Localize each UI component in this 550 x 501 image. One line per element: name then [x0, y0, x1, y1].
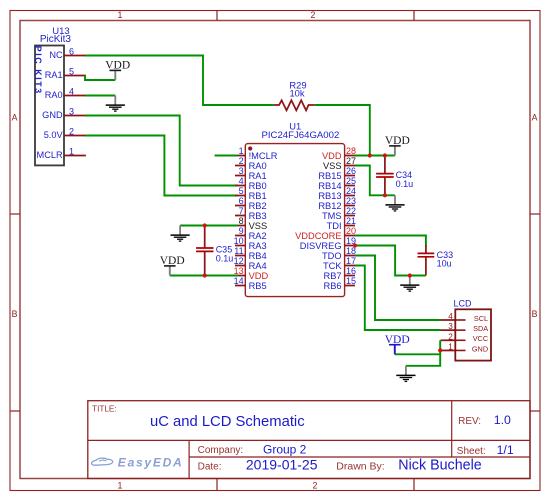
- svg-text:25: 25: [346, 176, 356, 186]
- svg-text:TMS: TMS: [322, 211, 342, 221]
- capacitor C34 0.1u: [376, 156, 413, 196]
- svg-text:RB15: RB15: [318, 171, 341, 181]
- svg-text:2019-01-25: 2019-01-25: [246, 457, 318, 473]
- svg-text:RA0: RA0: [45, 90, 63, 100]
- wire VDD to LCD node: [395, 353, 440, 355]
- wire 5.0V pin2 to RB1: [85, 136, 238, 196]
- resistor R29 10k: [274, 79, 315, 110]
- svg-text:5: 5: [239, 186, 244, 196]
- svg-text:Sheet:: Sheet:: [457, 446, 486, 457]
- svg-text:15: 15: [346, 276, 356, 286]
- svg-text:TCK: TCK: [323, 261, 342, 271]
- svg-text:26: 26: [346, 166, 356, 176]
- capacitor C35 0.1u: [196, 226, 233, 276]
- junction C33 ground: [408, 273, 412, 277]
- svg-text:23: 23: [346, 196, 356, 206]
- svg-text:10u: 10u: [437, 259, 452, 269]
- svg-text:TDO: TDO: [322, 251, 342, 261]
- svg-text:PicKit3: PicKit3: [40, 34, 72, 45]
- svg-text:20: 20: [346, 226, 356, 236]
- power VDD near LCD (blue): [385, 334, 410, 355]
- svg-text:B: B: [532, 309, 538, 319]
- wire NC pin6 to R29: [85, 56, 274, 106]
- svg-text:RB6: RB6: [324, 281, 342, 291]
- svg-text:24: 24: [346, 186, 356, 196]
- svg-text:11: 11: [234, 246, 243, 256]
- wire to !MCLR pin1: [215, 155, 238, 157]
- svg-text:RB0: RB0: [249, 181, 267, 191]
- svg-text:!MCLR: !MCLR: [249, 151, 278, 161]
- svg-text:3: 3: [448, 322, 453, 331]
- junction R29/pin28: [368, 153, 372, 157]
- svg-text:PIC24FJ64GA002: PIC24FJ64GA002: [261, 130, 339, 141]
- junction C34 bottom: [383, 193, 387, 197]
- power VDD near pin13: [160, 255, 185, 276]
- svg-text:RA2: RA2: [249, 231, 267, 241]
- junction DISVREG pin19: [353, 243, 357, 247]
- wire TCK pin17 to LCD SDA: [355, 266, 441, 331]
- capacitor C33 10u: [418, 245, 454, 276]
- svg-text:2: 2: [313, 481, 318, 491]
- svg-text:TDI: TDI: [327, 221, 342, 231]
- svg-text:6: 6: [239, 196, 244, 206]
- svg-text:6: 6: [69, 46, 74, 56]
- svg-text:18: 18: [346, 246, 356, 256]
- svg-text:16: 16: [346, 266, 356, 276]
- svg-text:1: 1: [448, 342, 453, 351]
- svg-text:12: 12: [234, 256, 244, 266]
- svg-text:SCL: SCL: [474, 314, 488, 323]
- svg-text:RB7: RB7: [324, 271, 342, 281]
- svg-text:VDD: VDD: [322, 151, 342, 161]
- svg-text:SDA: SDA: [473, 324, 488, 333]
- svg-text:GND: GND: [472, 344, 488, 353]
- wire DISVREG pin19 loop to C33 bottom: [355, 246, 426, 276]
- svg-text:2: 2: [311, 10, 316, 20]
- svg-text:Drawn By:: Drawn By:: [336, 460, 384, 472]
- junction LCD GND pin: [438, 348, 442, 352]
- svg-text:REV:: REV:: [458, 416, 481, 427]
- svg-text:7: 7: [239, 206, 244, 216]
- svg-text:A: A: [12, 113, 18, 123]
- svg-text:EasyEDA: EasyEDA: [118, 456, 184, 470]
- svg-text:1.0: 1.0: [494, 413, 511, 427]
- svg-text:VDD: VDD: [385, 334, 410, 346]
- svg-text:RB3: RB3: [249, 211, 267, 221]
- svg-text:RA1: RA1: [45, 70, 63, 80]
- svg-text:VDD: VDD: [385, 135, 410, 147]
- svg-text:DISVREG: DISVREG: [300, 241, 342, 251]
- svg-text:VSS: VSS: [249, 221, 268, 231]
- wire VDD pin28 to VDD symbol: [355, 155, 395, 157]
- svg-text:RA3: RA3: [249, 241, 267, 251]
- svg-text:B: B: [12, 309, 18, 319]
- svg-text:LCD: LCD: [454, 299, 473, 309]
- wire GND pin3 to RB0: [85, 116, 238, 186]
- power VDD near pin28: [385, 135, 410, 156]
- svg-text:3: 3: [69, 106, 74, 116]
- svg-text:2: 2: [69, 126, 74, 136]
- svg-text:RB5: RB5: [249, 281, 267, 291]
- wire VSS pin8 to ground: [180, 225, 238, 227]
- svg-text:NC: NC: [49, 50, 63, 60]
- svg-text:28: 28: [346, 146, 356, 156]
- svg-text:RA0: RA0: [249, 161, 267, 171]
- svg-text:RB4: RB4: [249, 251, 267, 261]
- svg-text:RB1: RB1: [249, 191, 267, 201]
- connector U13 PicKit3: [33, 26, 86, 166]
- svg-text:VDD: VDD: [249, 271, 269, 281]
- svg-text:5: 5: [69, 66, 74, 76]
- svg-text:27: 27: [346, 156, 356, 166]
- svg-text:1/1: 1/1: [497, 443, 514, 457]
- wire RA0 pin4 to ground: [85, 95, 115, 97]
- svg-text:0.1u: 0.1u: [216, 253, 234, 263]
- svg-text:21: 21: [346, 216, 356, 226]
- svg-text:4: 4: [69, 86, 74, 96]
- svg-text:10: 10: [234, 236, 244, 246]
- svg-text:RB2: RB2: [249, 201, 267, 211]
- svg-text:4: 4: [448, 312, 453, 321]
- svg-text:2: 2: [448, 332, 453, 341]
- wire VDD pin13: [170, 275, 238, 277]
- connector LCD: [441, 299, 492, 361]
- ground near U13: [106, 96, 125, 112]
- svg-text:VDD: VDD: [105, 60, 130, 72]
- svg-text:4: 4: [239, 176, 244, 186]
- svg-text:1: 1: [118, 10, 123, 20]
- svg-text:RB13: RB13: [318, 191, 341, 201]
- svg-text:17: 17: [346, 256, 356, 266]
- wire TDO pin18 to LCD SCL: [355, 256, 441, 321]
- svg-text:10k: 10k: [289, 88, 304, 99]
- IC U1 PIC24FJ64GA002: [234, 121, 356, 296]
- svg-text:1: 1: [118, 481, 123, 491]
- wire R29 to VDD pin28: [315, 105, 370, 156]
- svg-text:GND: GND: [42, 110, 63, 120]
- svg-text:14: 14: [234, 276, 244, 286]
- wire VDDCORE pin20 to C33: [355, 236, 426, 247]
- junction C35 bottom: [203, 273, 207, 277]
- ground near LCD: [396, 366, 415, 382]
- svg-text:TITLE:: TITLE:: [92, 404, 117, 413]
- ground near pin8: [171, 226, 190, 242]
- svg-text:1: 1: [239, 146, 244, 156]
- svg-text:2: 2: [239, 156, 244, 166]
- svg-text:9: 9: [239, 226, 244, 236]
- svg-text:MCLR: MCLR: [37, 150, 63, 160]
- wire LCD VCC loop to ground: [406, 340, 440, 366]
- svg-text:Nick Buchele: Nick Buchele: [398, 458, 481, 474]
- svg-text:Date:: Date:: [198, 461, 222, 472]
- svg-text:RB12: RB12: [318, 201, 341, 211]
- svg-text:22: 22: [346, 206, 356, 216]
- svg-text:Company:: Company:: [198, 445, 244, 456]
- svg-text:5.0V: 5.0V: [44, 130, 64, 140]
- junction C34 top: [383, 153, 387, 157]
- svg-text:0.1u: 0.1u: [396, 179, 414, 189]
- svg-text:1: 1: [69, 146, 74, 156]
- wire RA1 pin5 to VDD: [85, 76, 115, 81]
- ground near C33: [400, 276, 419, 292]
- svg-text:VSS: VSS: [323, 161, 342, 171]
- svg-text:uC and LCD Schematic: uC and LCD Schematic: [150, 414, 305, 430]
- svg-text:PIC KIT3: PIC KIT3: [33, 46, 43, 95]
- svg-text:Group 2: Group 2: [263, 443, 307, 457]
- svg-text:3: 3: [239, 166, 244, 176]
- svg-text:RB14: RB14: [318, 181, 341, 191]
- svg-text:A: A: [532, 113, 538, 123]
- wire VSS pin27 loop to C34 bottom: [355, 166, 395, 196]
- power VDD near U13: [105, 60, 130, 81]
- svg-text:RA1: RA1: [249, 171, 267, 181]
- junction C35 top: [203, 223, 207, 227]
- svg-text:VCC: VCC: [473, 334, 488, 343]
- svg-text:RA4: RA4: [249, 261, 267, 271]
- svg-text:VDDCORE: VDDCORE: [295, 231, 342, 241]
- ground near C34: [385, 195, 404, 211]
- svg-text:VDD: VDD: [160, 255, 185, 267]
- svg-text:8: 8: [239, 216, 244, 226]
